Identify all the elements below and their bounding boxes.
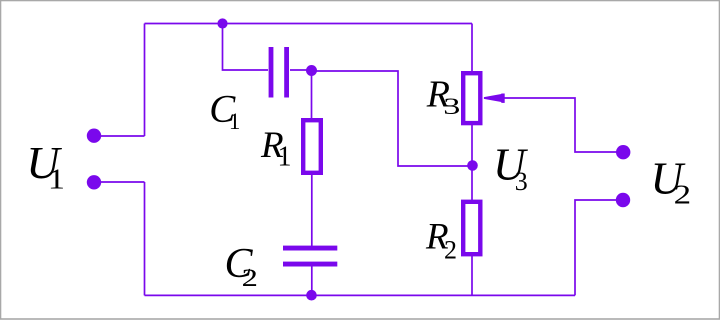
wire bottom bus: [145, 294, 576, 296]
wire left vertical lower: [144, 182, 146, 295]
label R2: [425, 217, 457, 265]
wire R3 top lead: [471, 24, 473, 74]
wire U1 lower lead: [94, 181, 145, 183]
wire C1 right plate to node: [290, 69, 312, 71]
svg-text:3: 3: [515, 167, 528, 196]
node U3 junction: [467, 160, 478, 171]
wire R1 bottom lead to C2: [311, 173, 313, 246]
potentiometer wiper arrow: [484, 94, 502, 102]
capacitor C2: [283, 246, 337, 251]
resistor R1: [303, 120, 321, 173]
resistor R2: [463, 202, 480, 254]
label U1: [26, 137, 65, 196]
node bottom bus junction: [306, 290, 317, 301]
resistor R3 potentiometer body: [463, 73, 480, 123]
svg-text:1: 1: [48, 164, 65, 196]
terminal U2 upper: [616, 145, 630, 159]
terminal U1 upper: [87, 129, 101, 143]
wire wiper to U2 upper terminal: [488, 98, 618, 152]
svg-text:2: 2: [242, 265, 258, 292]
wire R1 top lead: [311, 71, 313, 121]
label U2: [651, 153, 692, 209]
wire R3 bottom to R2 top through U3 node: [471, 124, 473, 201]
terminal U1 lower: [87, 175, 101, 189]
wire left vertical upper: [144, 24, 146, 137]
node C1 output junction: [306, 65, 317, 76]
wire top bus: [145, 23, 473, 25]
wire U1 upper lead: [94, 135, 145, 137]
capacitor C1: [269, 47, 274, 98]
terminal U2 lower: [616, 193, 630, 207]
label R1: [260, 125, 292, 172]
node junction on top bus: [217, 18, 227, 28]
svg-text:1: 1: [229, 109, 241, 134]
wire C2 bottom lead: [311, 266, 313, 295]
svg-text:1: 1: [278, 141, 292, 172]
svg-text:3: 3: [443, 94, 460, 119]
label U3: [493, 140, 528, 196]
wire R2 bottom lead: [471, 255, 473, 295]
label C2: [225, 241, 259, 292]
wire C1 node to R3 branch: [312, 71, 471, 166]
wire top junction to C1 left plate: [223, 24, 269, 71]
label C1: [209, 87, 240, 134]
label R3: [426, 73, 461, 119]
wire U2 lower terminal lead: [575, 200, 618, 295]
svg-text:2: 2: [444, 236, 457, 265]
svg-text:2: 2: [674, 180, 692, 210]
